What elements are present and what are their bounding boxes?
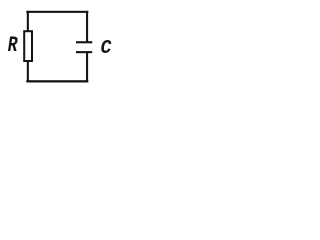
- wire right lower: [86, 51, 88, 82]
- svg-text:R: R: [8, 33, 18, 58]
- wire right upper: [86, 11, 88, 42]
- wire top: [26, 11, 88, 13]
- capacitor C: [76, 41, 92, 53]
- svg-text:C: C: [101, 36, 112, 59]
- wire bottom: [26, 80, 88, 82]
- wire left lower: [27, 61, 29, 82]
- resistor R: [24, 31, 32, 61]
- wire left upper: [27, 11, 29, 32]
